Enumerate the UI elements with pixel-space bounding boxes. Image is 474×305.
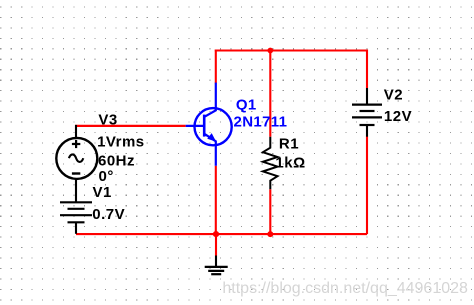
battery V1 plate 2 short bbox=[68, 208, 85, 210]
wire ground stub (red part) bbox=[215, 234, 217, 255]
svg-text:0°: 0° bbox=[99, 168, 114, 185]
svg-text:R1: R1 bbox=[279, 135, 299, 152]
battery V2 bottom pin bbox=[366, 125, 368, 137]
transistor Q1 base lead bbox=[186, 125, 205, 127]
svg-text:Q1: Q1 bbox=[236, 96, 257, 113]
battery V2 plate 4 short bbox=[360, 124, 375, 126]
battery V1 plate 3 long bbox=[60, 214, 92, 216]
battery V2 plate 2 short bbox=[360, 110, 375, 112]
svg-text:1kΩ: 1kΩ bbox=[275, 154, 305, 171]
AC source V3 circle bbox=[56, 138, 97, 179]
ground bar 1 bbox=[205, 266, 228, 268]
ground pin (black part) bbox=[215, 256, 217, 267]
node junction bottom emitter bbox=[213, 231, 219, 237]
svg-text:1Vrms: 1Vrms bbox=[97, 134, 145, 151]
svg-text:V3: V3 bbox=[98, 112, 117, 129]
svg-text:https://blog.csdn.net/qq_44961: https://blog.csdn.net/qq_44961028 bbox=[222, 280, 468, 297]
node junction top bbox=[267, 48, 273, 54]
AC source plus sign bbox=[72, 140, 80, 148]
transistor Q1 circle bbox=[195, 108, 232, 145]
ground bar 3 bbox=[211, 273, 221, 275]
svg-text:V1: V1 bbox=[93, 184, 112, 201]
wire resistor bottom vertical bbox=[269, 189, 271, 234]
svg-text:2N1711: 2N1711 bbox=[234, 114, 288, 131]
battery V1 bottom pin bbox=[75, 222, 77, 234]
svg-text:V2: V2 bbox=[384, 87, 403, 104]
battery V2 plate 1 long bbox=[352, 103, 382, 105]
wire V2 top vertical bbox=[366, 50, 368, 89]
wire emitter vertical (red part) bbox=[215, 166, 217, 234]
battery V1 plate 4 short bbox=[68, 221, 85, 223]
node junction bottom resistor bbox=[267, 231, 273, 237]
transistor Q1 emitter bbox=[204, 134, 216, 166]
wire top rail bbox=[215, 49, 367, 51]
wire resistor top vertical bbox=[269, 51, 271, 137]
svg-text:12V: 12V bbox=[384, 108, 412, 125]
transistor Q1 emitter arrow bbox=[208, 134, 216, 141]
AC source top pin bbox=[75, 125, 77, 138]
wire V2 bottom vertical bbox=[366, 137, 368, 235]
svg-text:0.7V: 0.7V bbox=[92, 206, 125, 223]
battery V2 top pin bbox=[366, 88, 368, 105]
svg-text:60Hz: 60Hz bbox=[98, 153, 135, 170]
AC source minus sign bbox=[72, 172, 80, 174]
battery V2 plate 3 long bbox=[352, 116, 382, 118]
wire base horizontal bbox=[75, 125, 186, 127]
battery V1 plate 1 long bbox=[60, 201, 92, 203]
wire collector vertical (red part) bbox=[215, 50, 217, 84]
transistor Q1 base bar bbox=[203, 115, 206, 137]
AC source bottom pin / V1 top pin bbox=[75, 179, 77, 203]
wire bottom rail bbox=[76, 233, 367, 235]
AC source sine wave bbox=[69, 154, 83, 162]
ground bar 2 bbox=[208, 270, 224, 272]
resistor R1 body bbox=[263, 137, 278, 190]
transistor Q1 collector bbox=[204, 83, 216, 117]
